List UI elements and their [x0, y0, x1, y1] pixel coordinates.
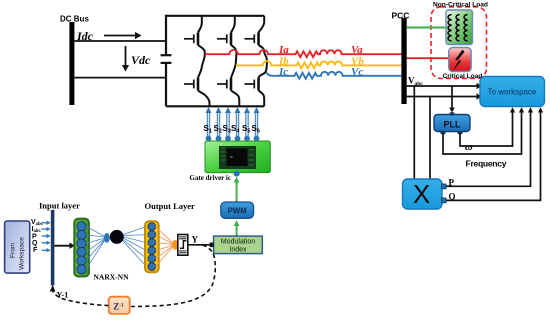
- svg-text:ic: ic: [230, 154, 233, 159]
- gate signal arrows S1-S6: [206, 107, 260, 136]
- wire drop to X input 1: [413, 86, 415, 179]
- gate driver input dot: [234, 171, 240, 177]
- wire PCC to workspace 2: [407, 96, 477, 98]
- leg B wire: [231, 16, 239, 107]
- svg-text:DC Bus: DC Bus: [60, 15, 89, 24]
- fan output to sum point: [156, 227, 173, 267]
- dashed feedback to input bar: [53, 291, 109, 306]
- capacitor C1 (DC link): [161, 55, 172, 63]
- svg-text:Input layer: Input layer: [39, 201, 80, 211]
- wire to non-critical load (green): [407, 27, 447, 29]
- arrow Idc: [104, 35, 136, 37]
- svg-text:From: From: [10, 242, 17, 258]
- X output ports: [442, 184, 447, 189]
- wire drop to PLL: [451, 86, 453, 109]
- output layer box: [145, 221, 159, 272]
- wire drop to X input 2: [429, 97, 431, 180]
- svg-text:X: X: [413, 179, 430, 209]
- svg-text:Ia: Ia: [278, 44, 289, 56]
- transistor Q5: [245, 33, 259, 46]
- wire PLL right port (w) to workspace: [460, 112, 513, 147]
- non-critical load box: [446, 10, 473, 45]
- context lens: [104, 233, 110, 243]
- dashed feedback from Y: [131, 245, 215, 307]
- leg C wire: [259, 16, 267, 107]
- inverter bridge outline: [166, 15, 264, 107]
- dashed load grouping box: [431, 7, 487, 79]
- To workspace block: [480, 77, 545, 107]
- PWM block: [221, 202, 254, 218]
- Z^-1 block: [109, 297, 130, 314]
- From Workspace block: [5, 221, 30, 273]
- transistor Q3: [217, 33, 231, 46]
- svg-text:To workspace: To workspace: [488, 88, 537, 97]
- transistor Q4: [217, 78, 231, 91]
- svg-text:Gate driver ic: Gate driver ic: [190, 174, 231, 182]
- input signal arrows: [42, 221, 51, 253]
- svg-text:PCC: PCC: [392, 10, 410, 20]
- wire phase A with resistor Ra and inductor La: [205, 50, 402, 57]
- svg-text:ω: ω: [465, 142, 473, 153]
- Modulation Index block: [214, 236, 263, 254]
- sum node (orange): [172, 240, 178, 250]
- fan hidden to context: [86, 226, 105, 269]
- svg-text:Ic: Ic: [278, 66, 288, 78]
- wire P to workspace: [446, 112, 530, 187]
- arrow input bar to hidden layer: [54, 245, 70, 247]
- gate node dots: [206, 136, 260, 142]
- svg-text:Y-1: Y-1: [57, 291, 69, 300]
- output layer neurons: [148, 223, 156, 271]
- svg-text:PLL: PLL: [444, 120, 462, 130]
- arrow Vdc: [125, 46, 127, 66]
- wire Q to workspace: [446, 112, 540, 201]
- wire phase B with resistor Rb and inductor Lb: [236, 61, 402, 68]
- svg-text:Idc: Idc: [76, 29, 94, 43]
- svg-text:Frequency: Frequency: [466, 159, 507, 169]
- wire phase C with resistor Rc and inductor Lc: [266, 72, 401, 79]
- svg-text:PWM: PWM: [228, 207, 247, 216]
- svg-text:Output Layer: Output Layer: [145, 201, 196, 211]
- input layer bar: [51, 210, 55, 286]
- svg-text:Workspace: Workspace: [19, 237, 26, 270]
- transistor Q2: [184, 78, 198, 91]
- svg-text:Vc: Vc: [351, 66, 363, 78]
- transistor Q6: [245, 78, 259, 91]
- PLL block: [434, 115, 470, 132]
- X (power computation) block: [403, 179, 443, 209]
- svg-text:Index: Index: [229, 247, 247, 254]
- input signal labels: [31, 219, 44, 254]
- svg-text:Vdc: Vdc: [131, 53, 151, 67]
- gate driver IC box: [205, 141, 270, 173]
- green arrow Modulation Index to PWM: [236, 225, 238, 236]
- svg-text:Non-Critical Load: Non-Critical Load: [433, 1, 488, 8]
- hidden layer box: [74, 219, 89, 277]
- wire DC-: [74, 77, 166, 79]
- wire DC+: [74, 40, 166, 42]
- svg-text:Critical Load: Critical Load: [443, 73, 483, 80]
- svg-text:NARX-NN: NARX-NN: [94, 273, 130, 282]
- svg-text:F: F: [33, 247, 38, 254]
- context neuron: [110, 230, 124, 244]
- wire Y to modulation index: [188, 244, 210, 246]
- green arrow PWM to gate driver: [236, 181, 238, 202]
- critical load box: [449, 48, 472, 72]
- labels S1-S6: [204, 124, 260, 135]
- svg-text:Y: Y: [192, 234, 199, 244]
- sample-hold block: [178, 235, 188, 256]
- svg-text:Va: Va: [351, 44, 363, 56]
- hidden layer neurons: [77, 222, 86, 274]
- DC bus bar: [69, 22, 74, 105]
- wire PLL left port to workspace: [443, 112, 522, 155]
- transistor Q1: [184, 33, 198, 46]
- PLL ports: [449, 112, 454, 116]
- svg-text:Q: Q: [32, 240, 38, 247]
- leg A wire: [198, 16, 210, 107]
- wire PCC to workspace 1: [407, 85, 477, 87]
- PCC bus bar: [401, 18, 406, 104]
- wire to critical load (red): [407, 57, 449, 59]
- fan context to output layer: [123, 227, 147, 267]
- svg-text:Modulation: Modulation: [221, 239, 255, 246]
